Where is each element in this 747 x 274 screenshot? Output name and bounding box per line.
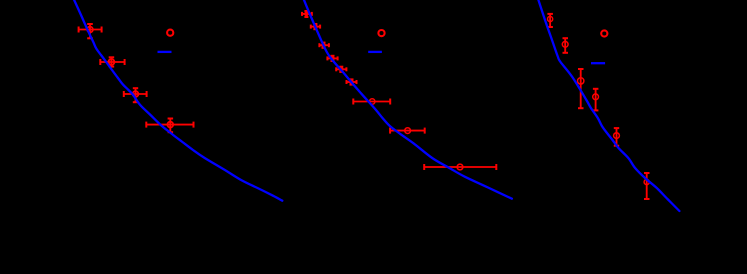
data point R1: [547, 14, 553, 27]
data point Q2: [311, 24, 320, 29]
model curve panel 3: [538, 0, 679, 211]
data point Q3: [319, 43, 329, 48]
data point R2: [562, 38, 568, 53]
data point Q4: [327, 56, 337, 61]
data point Q7: [353, 99, 390, 105]
data point Q5: [336, 67, 346, 72]
data point Q1: [302, 11, 312, 17]
data point P3: [124, 88, 147, 102]
legend marker panel 3: [601, 30, 607, 36]
data point R3: [578, 69, 584, 108]
data point R6: [644, 173, 650, 199]
model curve panel 2: [304, 0, 512, 199]
legend line panel 3: [591, 62, 605, 64]
legend marker panel 1: [167, 30, 173, 36]
legend line panel 2: [368, 51, 382, 53]
legend line panel 1: [158, 51, 172, 53]
data point P4: [146, 119, 193, 133]
data point Q9: [424, 164, 496, 170]
data point Q6: [347, 79, 357, 84]
model curve panel 1: [74, 0, 283, 201]
data point Q8: [390, 128, 425, 134]
data point P1: [79, 24, 102, 38]
legend marker panel 2: [378, 30, 384, 36]
data point R4: [593, 89, 599, 111]
data point R5: [614, 128, 620, 146]
data point P2: [100, 57, 124, 66]
